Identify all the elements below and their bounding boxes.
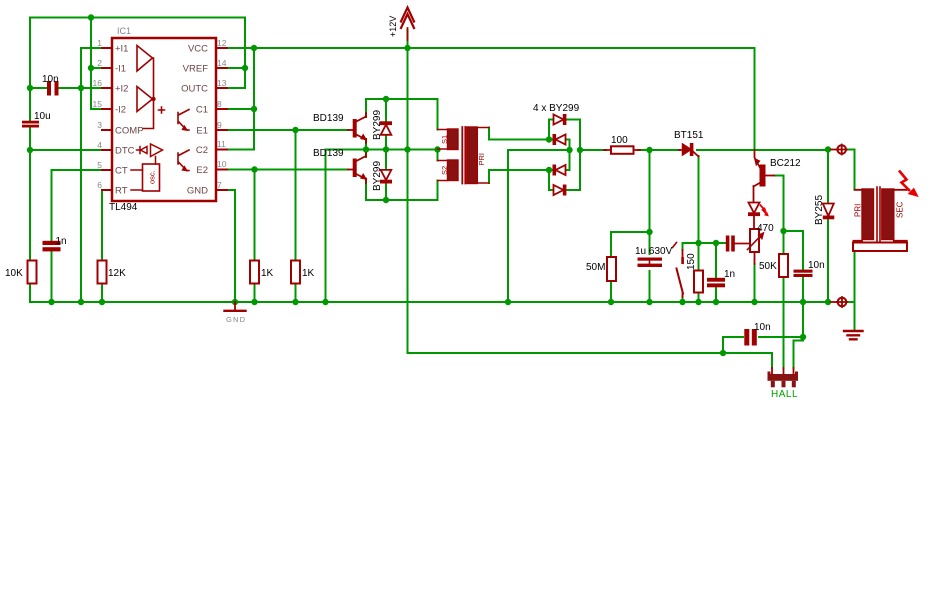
DTC diode and buffer [137, 147, 148, 154]
wire bridge D2 [549, 140, 570, 151]
svg-text:BY299: BY299 [372, 161, 383, 191]
svg-text:+12V: +12V [388, 16, 398, 37]
node HALL feed [720, 350, 726, 356]
wire left vertical x=30 (VREF/10u/DTC/10K chain) [30, 18, 103, 303]
svg-text:470: 470 [757, 223, 774, 234]
capacitor 10n right [794, 270, 813, 277]
svg-text:PRI: PRI [477, 153, 486, 166]
wire pins 2+15 tie x=91 [91, 18, 103, 110]
junction rail/1u [646, 299, 652, 305]
wire 150 resistor [698, 243, 700, 302]
wire HALL node lines [723, 302, 803, 368]
svg-text:IC1: IC1 [117, 26, 131, 36]
svg-text:GND: GND [187, 186, 208, 197]
svg-text:SEC: SEC [896, 201, 905, 218]
node DTC [27, 147, 33, 153]
resistor 50M [607, 257, 616, 281]
wire GND pin7 down [227, 190, 235, 302]
node C1 [251, 106, 257, 112]
svg-text:6: 6 [97, 180, 102, 190]
wire VREF/OUTC x=245 [227, 18, 245, 89]
svg-text:7: 7 [217, 180, 222, 190]
svg-text:12: 12 [217, 38, 227, 48]
junction rail/12K [99, 299, 105, 305]
switch (150 node to ground) [682, 250, 684, 297]
svg-text:10u: 10u [34, 111, 51, 122]
diode bridge D1 (points right) [554, 115, 564, 125]
resistor 12K [98, 261, 107, 284]
svg-text:DTC: DTC [115, 146, 135, 157]
node 10n right / +I [78, 85, 84, 91]
plus sign [159, 107, 165, 113]
svg-text:1K: 1K [261, 268, 274, 279]
svg-text:4: 4 [97, 140, 102, 150]
svg-text:BD139: BD139 [313, 148, 344, 159]
svg-text:4 x BY299: 4 x BY299 [533, 103, 580, 114]
node 10n left [27, 85, 33, 91]
svg-text:S2: S2 [440, 166, 449, 175]
svg-text:-I2: -I2 [115, 105, 126, 116]
svg-text:E1: E1 [196, 126, 208, 137]
capacitor 1n left [43, 241, 61, 252]
node 10n bottom right [800, 334, 806, 340]
svg-text:BY255: BY255 [814, 195, 825, 225]
capacitor 10u [22, 121, 39, 128]
node VREF [242, 65, 248, 71]
junction rail/center-tap drop [322, 299, 328, 305]
node bridge minus [566, 147, 572, 153]
wire bridge minus to ground [508, 150, 570, 302]
svg-text:16: 16 [93, 78, 103, 88]
capacitor 10n top-left [47, 81, 59, 96]
spark arrow at SEC [899, 171, 910, 192]
node +12 arrow [404, 45, 410, 51]
svg-text:+I2: +I2 [115, 84, 128, 95]
node Db bottom [383, 197, 389, 203]
wire 10n right branch [784, 231, 804, 302]
pad terminal top [831, 149, 837, 151]
transformer T2 SEC winding [882, 189, 894, 240]
svg-text:12K: 12K [108, 268, 126, 279]
IC1 TL494 box [112, 38, 216, 201]
svg-text:11: 11 [217, 139, 226, 149]
diode BY299 Da (vertical, cathode up) [381, 122, 392, 125]
transformer T1 winding PRI [467, 127, 478, 184]
transformer T1 winding S1 [448, 129, 459, 150]
10n bottom cap [744, 329, 757, 346]
node gate/150 [695, 240, 701, 246]
svg-text:15: 15 [93, 99, 103, 109]
diode BY299 Db (vertical, cathode down) [381, 180, 392, 183]
svg-text:osc.: osc. [148, 170, 157, 184]
svg-text:1: 1 [97, 38, 102, 48]
resistor 50K [779, 254, 788, 277]
node BY255 top [825, 146, 831, 152]
wire 50K in series to HALL output [783, 231, 785, 368]
svg-text:8: 8 [217, 99, 222, 109]
svg-text:14: 14 [217, 58, 227, 68]
svg-text:VREF: VREF [183, 64, 209, 75]
op-amp comparator 1 [137, 46, 153, 72]
wire bridge D1 [549, 120, 580, 191]
svg-text:TL494: TL494 [109, 202, 138, 213]
wire BY255 vertical [827, 150, 829, 302]
wire transformer plate to GND [847, 251, 855, 330]
wire E1 to base Q1 [227, 130, 348, 302]
junction rail/IC GND [232, 299, 238, 305]
svg-text:OUTC: OUTC [181, 84, 208, 95]
wire 1n mid [715, 243, 717, 302]
svg-text:PRI: PRI [854, 204, 863, 217]
svg-text:COMP: COMP [115, 126, 144, 137]
wire push-pull top rail [366, 99, 438, 130]
potentiometer 470 [750, 229, 759, 252]
svg-text:10n: 10n [42, 74, 59, 85]
diode bridge D4 (points right) [554, 185, 564, 195]
HALL sensor [768, 372, 799, 388]
transformer T2 core [877, 187, 880, 244]
osc box [143, 164, 160, 191]
junction rail/bridge minus [505, 299, 511, 305]
junction rail/50M [608, 299, 614, 305]
svg-text:9: 9 [217, 120, 222, 130]
+12V supply arrow [407, 28, 409, 40]
wire mid rail / center tap [326, 139, 438, 302]
svg-text:5: 5 [97, 160, 102, 170]
node 1n mid top [713, 240, 719, 246]
node after 100R [646, 147, 652, 153]
wire +I net via 10n x=81 [30, 48, 103, 302]
node Q1 emitter / Q2 collector [363, 146, 369, 152]
svg-text:50M: 50M [586, 262, 605, 273]
node bridge in bottom [546, 167, 552, 173]
transistor Q2 BD139 [348, 169, 354, 171]
wire BY299 Da vertical [385, 99, 387, 150]
junction rail/10n right [800, 299, 806, 305]
wire node 50M/1u y=232 [611, 232, 650, 302]
svg-text:10: 10 [217, 159, 227, 169]
wire +12V arrow drop and long vertical to HALL feed [408, 30, 772, 368]
svg-text:50K: 50K [759, 261, 777, 272]
capacitor 1u 630V [638, 258, 663, 268]
node center vertical mid [404, 146, 410, 152]
LED light arrows [760, 205, 765, 211]
thyristor BT151 [679, 149, 683, 151]
svg-text:E2: E2 [196, 165, 208, 176]
wire switch bottom [682, 296, 684, 302]
resistor 150 [694, 271, 703, 293]
svg-text:BD139: BD139 [313, 113, 344, 124]
junction rail/470 [751, 299, 757, 305]
wire bridge plus to 100R [580, 149, 606, 151]
capacitor 1n mid [707, 278, 725, 288]
svg-text:2: 2 [97, 58, 102, 68]
wire BY299 Db vertical [385, 150, 387, 201]
resistor 1K b [291, 261, 300, 284]
ground symbol GND1 [234, 302, 236, 310]
wire RT pin6 to 12K [102, 190, 103, 302]
node bridge plus [577, 147, 583, 153]
LED [749, 203, 760, 214]
wire node y=243 [683, 243, 726, 250]
svg-text:VCC: VCC [188, 44, 208, 55]
ground symbol GND2 (3 bars) [844, 331, 863, 339]
svg-text:BY299: BY299 [372, 110, 383, 140]
wire pad1 to output transformer top [847, 150, 855, 190]
node top rail / pin2 tie [88, 14, 94, 20]
diode bridge D3 (points left) [556, 165, 566, 175]
svg-text:3: 3 [97, 120, 102, 130]
node Da/Db mid [383, 146, 389, 152]
svg-text:13: 13 [217, 78, 227, 88]
svg-text:10K: 10K [5, 268, 23, 279]
node Da top [383, 96, 389, 102]
wire bridge D3 [549, 150, 570, 170]
wire push-pull bottom rail [366, 179, 438, 200]
node VCC x254 [251, 45, 257, 51]
svg-text:S1: S1 [440, 135, 449, 144]
junction rail/+I net [78, 299, 84, 305]
svg-text:1u 630V: 1u 630V [635, 246, 673, 257]
wire C1 C2 to +12 x=254 [227, 48, 254, 150]
svg-text:BT151: BT151 [674, 130, 704, 141]
wire BC212 base to node 231 [774, 176, 784, 232]
junction rail/switch [679, 299, 685, 305]
wire BT151 cathode on to BC212 and BY255 [697, 149, 828, 151]
node E1/1K [292, 127, 298, 133]
junction rail/1n mid [713, 299, 719, 305]
svg-text:C1: C1 [196, 105, 208, 116]
svg-text:RT: RT [115, 186, 128, 197]
comparator output to COMP [143, 58, 154, 129]
svg-text:BC212: BC212 [770, 158, 801, 169]
wire 470 pot bottom [754, 264, 756, 302]
wire main ground rail [30, 301, 828, 303]
node base/50K [780, 228, 786, 234]
junction rail/1K a [251, 299, 257, 305]
wire PRI bottom to bridge [489, 170, 549, 183]
diode BY255 [823, 204, 834, 217]
node bridge in top [546, 136, 552, 142]
resistor 10K [28, 261, 37, 284]
svg-text:+I1: +I1 [115, 44, 128, 55]
junction rail/1K b [292, 299, 298, 305]
diode bridge D2 (points left) [556, 135, 566, 145]
wire BT151 gate down [698, 156, 700, 243]
svg-text:100: 100 [611, 135, 628, 146]
transistor BC212 [754, 150, 756, 157]
svg-text:HALL: HALL [771, 389, 798, 400]
IC pin stubs left [102, 48, 112, 190]
svg-text:1n: 1n [56, 236, 67, 247]
svg-text:1n: 1n [724, 269, 735, 280]
resistor 1K a [250, 261, 259, 284]
svg-text:10n: 10n [808, 260, 825, 271]
wire 100R to BT151 [638, 150, 679, 232]
svg-text:150: 150 [686, 253, 697, 270]
node BY255 bottom rail end [825, 299, 831, 305]
internal transistor 1 (C1/E1) [178, 110, 189, 131]
pad terminal bottom [831, 301, 837, 303]
transformer T2 PRI winding [862, 189, 874, 240]
svg-text:-I1: -I1 [115, 64, 126, 75]
wire top VREF rail [30, 17, 245, 19]
wire +12V rail y=48 [227, 48, 755, 150]
transformer T2 bottom plate [853, 243, 907, 252]
transformer T1 winding S2 [448, 160, 459, 181]
node pin2 [88, 65, 94, 71]
svg-text:GND: GND [226, 315, 246, 324]
svg-text:10n: 10n [754, 322, 771, 333]
svg-text:C2: C2 [196, 145, 208, 156]
internal transistor 2 (C2/E2) [178, 150, 189, 171]
node center tap [434, 146, 440, 152]
resistor 100 (horizontal) [611, 146, 634, 154]
svg-text:CT: CT [115, 166, 128, 177]
IC pin stubs right [216, 48, 227, 190]
wire 1u cap down [649, 232, 651, 302]
svg-text:1K: 1K [302, 268, 315, 279]
op-amp comparator 2 [137, 87, 153, 112]
wire CT pin5 to 1n [52, 170, 104, 302]
transistor Q1 BD139 [348, 129, 354, 131]
transformer T1 core [462, 127, 465, 184]
node 1u top [646, 229, 652, 235]
wire bridge D4 [549, 170, 580, 190]
junction rail/150 [695, 299, 701, 305]
capacitor series (to pot wiper) [726, 236, 735, 252]
wire PRI top to bridge [489, 128, 549, 140]
junction rail/1n [48, 299, 54, 305]
wire E2 to base Q2 [227, 170, 348, 303]
node E2/1K [251, 166, 257, 172]
wire wiper (dark red) [735, 243, 750, 245]
